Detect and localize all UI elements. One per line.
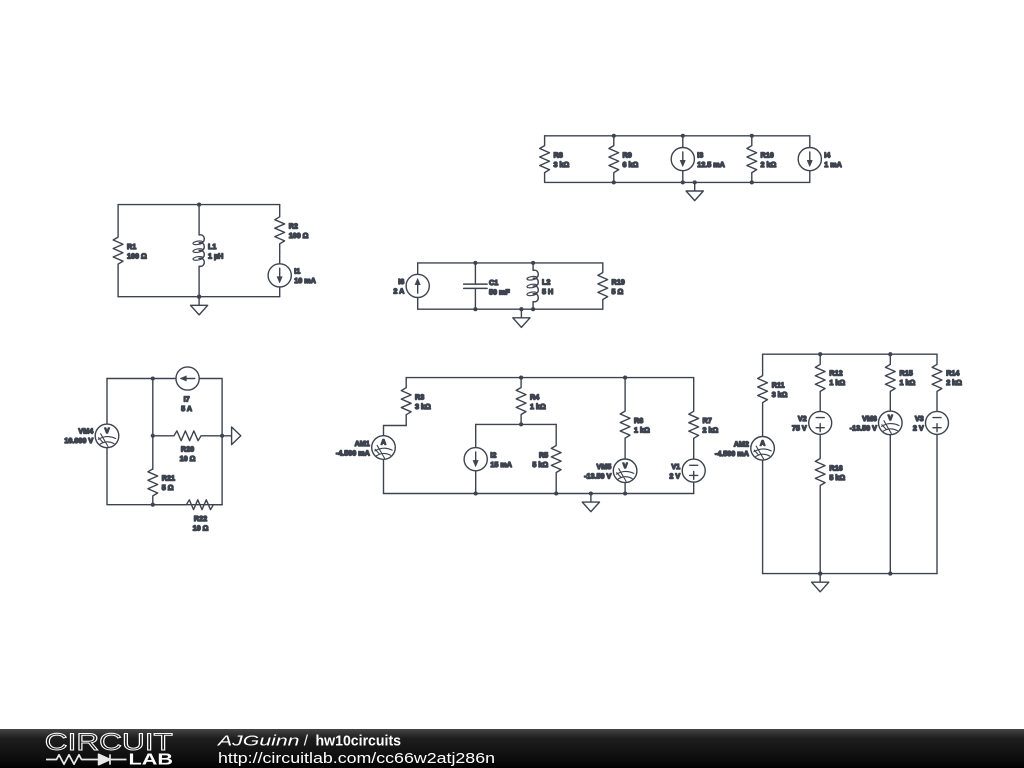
svg-text:1 kΩ: 1 kΩ [530, 402, 546, 411]
junction [473, 261, 477, 265]
resistor R19 [598, 263, 625, 309]
svg-text:L2: L2 [542, 277, 550, 286]
junction [519, 376, 523, 380]
svg-text:V2: V2 [798, 414, 807, 423]
CircuitLab logo resistor-diode glyph [46, 754, 127, 764]
resistor R1 [113, 205, 147, 297]
svg-text:75 V: 75 V [792, 424, 807, 433]
svg-text:-4.500 mA: -4.500 mA [715, 449, 749, 458]
svg-text:hw10circuits: hw10circuits [316, 732, 402, 749]
junction [623, 491, 627, 495]
svg-text:VM5: VM5 [597, 462, 612, 471]
svg-text:1 kΩ: 1 kΩ [900, 378, 916, 387]
junction [531, 307, 535, 311]
svg-text:5 kΩ: 5 kΩ [532, 460, 548, 469]
wire top-left to I7 [107, 378, 176, 380]
current source I1 [268, 252, 316, 297]
svg-text:V: V [623, 461, 628, 470]
current source I3 [671, 136, 725, 183]
svg-text:R7: R7 [703, 416, 712, 425]
svg-text:10 Ω: 10 Ω [180, 454, 196, 463]
wire R3 to AM1 [384, 426, 407, 436]
svg-text:R19: R19 [612, 277, 625, 286]
wire middle rail [152, 379, 154, 470]
junction [750, 134, 754, 138]
resistor R22 [153, 500, 222, 533]
wire bottom net [107, 448, 222, 505]
svg-text:V: V [105, 426, 110, 435]
svg-text:C1: C1 [489, 278, 498, 287]
junction [681, 180, 685, 184]
voltage source V2 [792, 411, 832, 434]
svg-text:5 Ω: 5 Ω [612, 287, 624, 296]
resistor R8 [540, 136, 570, 183]
svg-text:R5: R5 [539, 450, 548, 459]
svg-text:R20: R20 [181, 445, 194, 454]
wire I7 to right rail [199, 379, 222, 505]
svg-text:100 Ω: 100 Ω [289, 231, 309, 240]
svg-text:2 V: 2 V [669, 471, 680, 480]
svg-text:R3: R3 [415, 393, 424, 402]
junction [623, 376, 627, 380]
capacitor C1 [464, 263, 511, 309]
junction [612, 180, 616, 184]
resistor R6 [620, 378, 650, 459]
svg-text:VM4: VM4 [78, 427, 93, 436]
voltmeter VM5 [584, 459, 637, 494]
svg-text:10.000 V: 10.000 V [64, 436, 93, 445]
svg-text:R12: R12 [829, 368, 842, 377]
svg-text:R1: R1 [127, 242, 136, 251]
svg-text:5 Ω: 5 Ω [162, 483, 174, 492]
svg-text:10 Ω: 10 Ω [193, 523, 209, 532]
junction [750, 180, 754, 184]
wire bottom/ground net circuit1 [545, 181, 810, 183]
wire top net circuit3 [418, 262, 603, 264]
svg-text:5 A: 5 A [181, 404, 192, 413]
wire to I2 [475, 424, 477, 447]
inductor L2 [527, 263, 553, 309]
wire bottom/ground net circuit2 [118, 296, 280, 298]
svg-text:R10: R10 [761, 150, 774, 159]
svg-text:V3: V3 [915, 414, 924, 423]
svg-text:I1: I1 [294, 267, 300, 276]
svg-text:3 kΩ: 3 kΩ [415, 402, 431, 411]
wire top net circuit5 [406, 377, 694, 379]
resistor R21 [148, 469, 175, 505]
svg-text:I7: I7 [184, 395, 190, 404]
svg-text:-13.50 V: -13.50 V [584, 471, 611, 480]
voltage source V3 [913, 411, 949, 573]
junction [888, 352, 892, 356]
junction [531, 261, 535, 265]
ammeter AM1 [336, 436, 395, 494]
voltmeter VM4 [64, 424, 118, 448]
svg-text:http://circuitlab.com/cc66w2at: http://circuitlab.com/cc66w2atj286n [218, 751, 495, 767]
svg-text:R21: R21 [162, 474, 175, 483]
node flag [222, 427, 241, 445]
ground [191, 295, 208, 315]
junction [474, 491, 478, 495]
svg-text:I4: I4 [824, 150, 830, 159]
svg-text:100 Ω: 100 Ω [127, 251, 147, 260]
svg-text:-13.50 V: -13.50 V [850, 424, 877, 433]
resistor R12 [815, 354, 845, 411]
resistor R16 [815, 434, 845, 573]
footer bar [0, 729, 1024, 768]
svg-text:R4: R4 [530, 392, 539, 401]
svg-text:R11: R11 [772, 380, 785, 389]
ammeter AM2 [715, 436, 774, 573]
svg-text:1 kΩ: 1 kΩ [634, 425, 650, 434]
svg-text:I2: I2 [490, 451, 496, 460]
junction [197, 203, 201, 207]
svg-text:2 A: 2 A [393, 287, 404, 296]
ground [582, 491, 599, 511]
ground [686, 180, 703, 200]
inductor L1 [193, 205, 224, 297]
svg-text:2 kΩ: 2 kΩ [761, 160, 777, 169]
svg-text:10 mA: 10 mA [294, 276, 316, 285]
svg-text:12.5 mA: 12.5 mA [697, 160, 725, 169]
svg-text:AJGuinn: AJGuinn [217, 732, 300, 749]
resistor R3 [401, 378, 431, 426]
svg-text:50 mF: 50 mF [489, 288, 510, 297]
ground [812, 572, 829, 592]
svg-text:5 kΩ: 5 kΩ [829, 473, 845, 482]
svg-text:R16: R16 [829, 463, 842, 472]
svg-text:3 kΩ: 3 kΩ [772, 390, 788, 399]
resistor R15 [885, 354, 915, 411]
junction [220, 434, 224, 438]
svg-text:5 H: 5 H [542, 287, 553, 296]
svg-text:I6: I6 [398, 277, 404, 286]
voltmeter VM6 [850, 411, 902, 574]
resistor R7 [689, 378, 719, 460]
voltage source V1 [669, 459, 705, 493]
svg-text:I3: I3 [697, 150, 703, 159]
junction [681, 134, 685, 138]
junction [151, 376, 155, 380]
svg-text:2 V: 2 V [913, 424, 924, 433]
current source I4 [798, 136, 842, 183]
svg-text:AM1: AM1 [355, 439, 370, 448]
svg-text:6 kΩ: 6 kΩ [623, 160, 639, 169]
junction [197, 295, 201, 299]
junction [151, 503, 155, 507]
wire top net circuit2 [118, 204, 280, 206]
junction [151, 434, 155, 438]
current source I6 [393, 263, 429, 309]
junction [473, 307, 477, 311]
wire top net circuit1 [545, 135, 810, 137]
junction [612, 134, 616, 138]
wire left rail upper [106, 379, 108, 425]
resistor R2 [275, 205, 309, 252]
svg-text:R2: R2 [289, 222, 298, 231]
current source I7 [176, 367, 199, 413]
svg-text:2 kΩ: 2 kΩ [703, 426, 719, 435]
svg-text:A: A [760, 439, 765, 448]
wire top net circuit6 [763, 353, 937, 355]
svg-text:R8: R8 [554, 150, 563, 159]
svg-text:R6: R6 [634, 416, 643, 425]
svg-text:2 kΩ: 2 kΩ [946, 378, 962, 387]
junction [888, 572, 892, 576]
junction [554, 491, 558, 495]
svg-text:1 µH: 1 µH [208, 251, 223, 260]
svg-text:R22: R22 [194, 514, 207, 523]
svg-text:1 mA: 1 mA [824, 160, 842, 169]
resistor R14 [932, 354, 962, 411]
wire bottom/ground net circuit3 [418, 308, 603, 310]
resistor R20 [153, 431, 222, 463]
resistor R5 [532, 424, 561, 493]
resistor R11 [758, 354, 788, 436]
ground [513, 307, 530, 327]
junction [818, 352, 822, 356]
resistor R10 [747, 136, 777, 183]
resistor R4 [516, 378, 546, 425]
wire bottom/ground net circuit6 [763, 573, 937, 575]
junction [818, 572, 822, 576]
wire bottom/ground net circuit5 [384, 493, 694, 495]
svg-text:V1: V1 [671, 462, 680, 471]
wire mid net R4-I2-R5 [476, 423, 557, 425]
svg-text:A: A [381, 438, 386, 447]
junction [519, 422, 523, 426]
svg-text:AM2: AM2 [734, 440, 749, 449]
svg-text:LAB: LAB [129, 751, 174, 768]
svg-text:R14: R14 [946, 368, 959, 377]
current source I2 [464, 448, 512, 494]
resistor R9 [609, 136, 639, 183]
svg-text:-4.500 mA: -4.500 mA [336, 448, 370, 457]
svg-text:3 kΩ: 3 kΩ [554, 160, 570, 169]
svg-text:R15: R15 [900, 368, 913, 377]
svg-text:15 mA: 15 mA [490, 460, 512, 469]
svg-text:L1: L1 [208, 242, 216, 251]
svg-text:V: V [888, 413, 893, 422]
svg-text:1 kΩ: 1 kΩ [829, 378, 845, 387]
svg-text:R9: R9 [623, 150, 632, 159]
svg-text:VM6: VM6 [862, 414, 877, 423]
